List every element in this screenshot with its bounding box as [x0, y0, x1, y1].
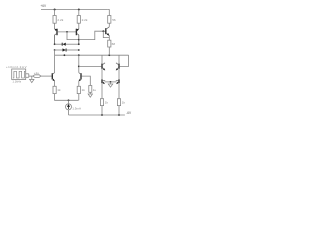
transistor Q7 output lower left [102, 79, 105, 84]
resistor R4 100 [108, 40, 111, 47]
svg-text:56: 56 [112, 18, 116, 22]
node junction dot tail [68, 99, 70, 101]
svg-text:1k: 1k [82, 88, 86, 92]
resistor R3 56 top right [108, 16, 111, 24]
transistor Q2 mirror right (PNP, mirrored) [76, 29, 79, 45]
svg-text:2.2k: 2.2k [82, 18, 88, 22]
node junction dot diode line1 right [78, 43, 80, 45]
wire diode line1 right segment [66, 43, 79, 45]
wire rail right drop [108, 10, 110, 16]
wire R2 bottom lead [78, 23, 80, 29]
wire diff right base to cap2 [82, 76, 91, 85]
wire right emitter column [118, 83, 120, 99]
wire diff right emitter lead [78, 81, 80, 86]
wire right loop from bus [120, 55, 129, 66]
node junction dot mid bus small [64, 54, 66, 56]
wire bottom rail [69, 114, 125, 116]
wire output node line [105, 81, 117, 83]
wire diode line2 right segment [66, 49, 79, 51]
wire R3 bottom lead [108, 23, 110, 27]
node junction dot rail R7 [101, 114, 103, 116]
node junction dot rail-R1 [54, 9, 56, 11]
node junction dot output base tap [78, 66, 80, 68]
wire R1 top lead [54, 10, 56, 16]
wire R5 bottom to tail [55, 94, 79, 101]
wire column left to diff pair [54, 50, 56, 73]
wire inter-stage right [118, 69, 120, 80]
node junction dot mid bus VAS [108, 54, 110, 56]
wire long mid bus [55, 54, 129, 56]
resistor R2 2.2k [77, 16, 80, 24]
resistor R1 2.2k [53, 16, 56, 24]
node junction dot diode line2 left [54, 49, 56, 51]
wire cap to diff base [41, 75, 52, 77]
transistor Q3 VAS (NPN) [103, 27, 109, 36]
svg-text:1k: 1k [122, 101, 126, 105]
wire upper-left output collector riser [101, 55, 103, 63]
wire inter-stage left [101, 69, 103, 80]
node junction dot output [110, 81, 112, 83]
wire source pin bottom [26, 76, 29, 78]
ground output arrow [108, 82, 113, 87]
resistor R7 1k output left [100, 99, 103, 106]
wire diode line2 left segment [55, 49, 63, 51]
transistor Q8 output upper right (mirrored) [116, 63, 119, 71]
node junction dot diode line2 right [78, 49, 80, 51]
wire left emitter column [101, 83, 103, 99]
wire diff left emitter lead [54, 81, 56, 86]
current source I1 1.5mA [66, 100, 81, 115]
ground cap2 arrow [88, 92, 92, 97]
wire bridge to cap [29, 75, 33, 77]
transistor Q5 diff right (NPN, mirrored) [79, 73, 81, 82]
wire tap to left output base [79, 65, 102, 67]
node junction dot jog-column [78, 39, 80, 41]
wire VAS base-emitter L link [103, 31, 109, 37]
svg-text:2.2k: 2.2k [57, 18, 63, 22]
svg-text:1u: 1u [93, 88, 97, 92]
capacitor C1 1u polarized input [33, 71, 41, 78]
node junction dot base bus [66, 31, 68, 33]
node junction dot mid bus column [78, 54, 80, 56]
svg-text:-6V: -6V [126, 111, 132, 115]
wire R1 bottom lead [54, 23, 56, 29]
node junction dot rail-R2 [78, 9, 80, 11]
node junction dot rail R8 [118, 114, 120, 116]
transistor Q6 output upper left (NPN) [102, 63, 105, 71]
svg-text:1.1kHz: 1.1kHz [12, 80, 21, 84]
wire jog to VAS base [79, 31, 104, 39]
transistor Q9 output lower right [116, 79, 119, 84]
wire VAS emitter lead [108, 36, 110, 41]
wire column right to diff pair [78, 55, 80, 72]
wire upper-right output collector riser [118, 55, 120, 63]
wire R8 bottom lead [118, 106, 120, 115]
wire diode line1 left segment [55, 43, 63, 45]
wire mirror base bus [58, 31, 76, 33]
pulse source V1 box [6, 65, 27, 84]
resistor R5 1k [53, 86, 56, 93]
ground input arrow [30, 76, 34, 83]
wire pin bridge [28, 74, 30, 78]
node junction dot diode line1 left [54, 43, 56, 45]
wire source pin top [26, 73, 29, 75]
svg-text:1.5mA: 1.5mA [72, 106, 81, 110]
transistor Q1 mirror left (PNP) [55, 29, 58, 45]
diode D1 (points left) [62, 43, 66, 46]
resistor R8 1k output right [117, 99, 120, 106]
wire R7 bottom lead [101, 106, 103, 115]
wire R4 bottom lead [108, 47, 110, 55]
capacitor C2 1u [89, 86, 92, 93]
wire R2 top lead [78, 10, 80, 16]
svg-text:+6V: +6V [40, 4, 47, 8]
node junction dot VAS base [102, 30, 104, 32]
wire mirror base jog down [67, 32, 79, 40]
svg-text:1k: 1k [57, 88, 61, 92]
resistor R6 1k [77, 86, 80, 93]
svg-text:68: 68 [112, 42, 116, 46]
diode D2 (points right) [63, 48, 67, 51]
svg-text:+1u: +1u [34, 71, 39, 75]
transistor Q4 diff left (NPN) [52, 73, 55, 82]
svg-text:+10m/2.2mV: +10m/2.2mV [6, 65, 27, 69]
svg-text:1k: 1k [105, 101, 109, 105]
wire top supply rail [41, 9, 108, 11]
wire R6 bottom to tail [78, 94, 80, 101]
